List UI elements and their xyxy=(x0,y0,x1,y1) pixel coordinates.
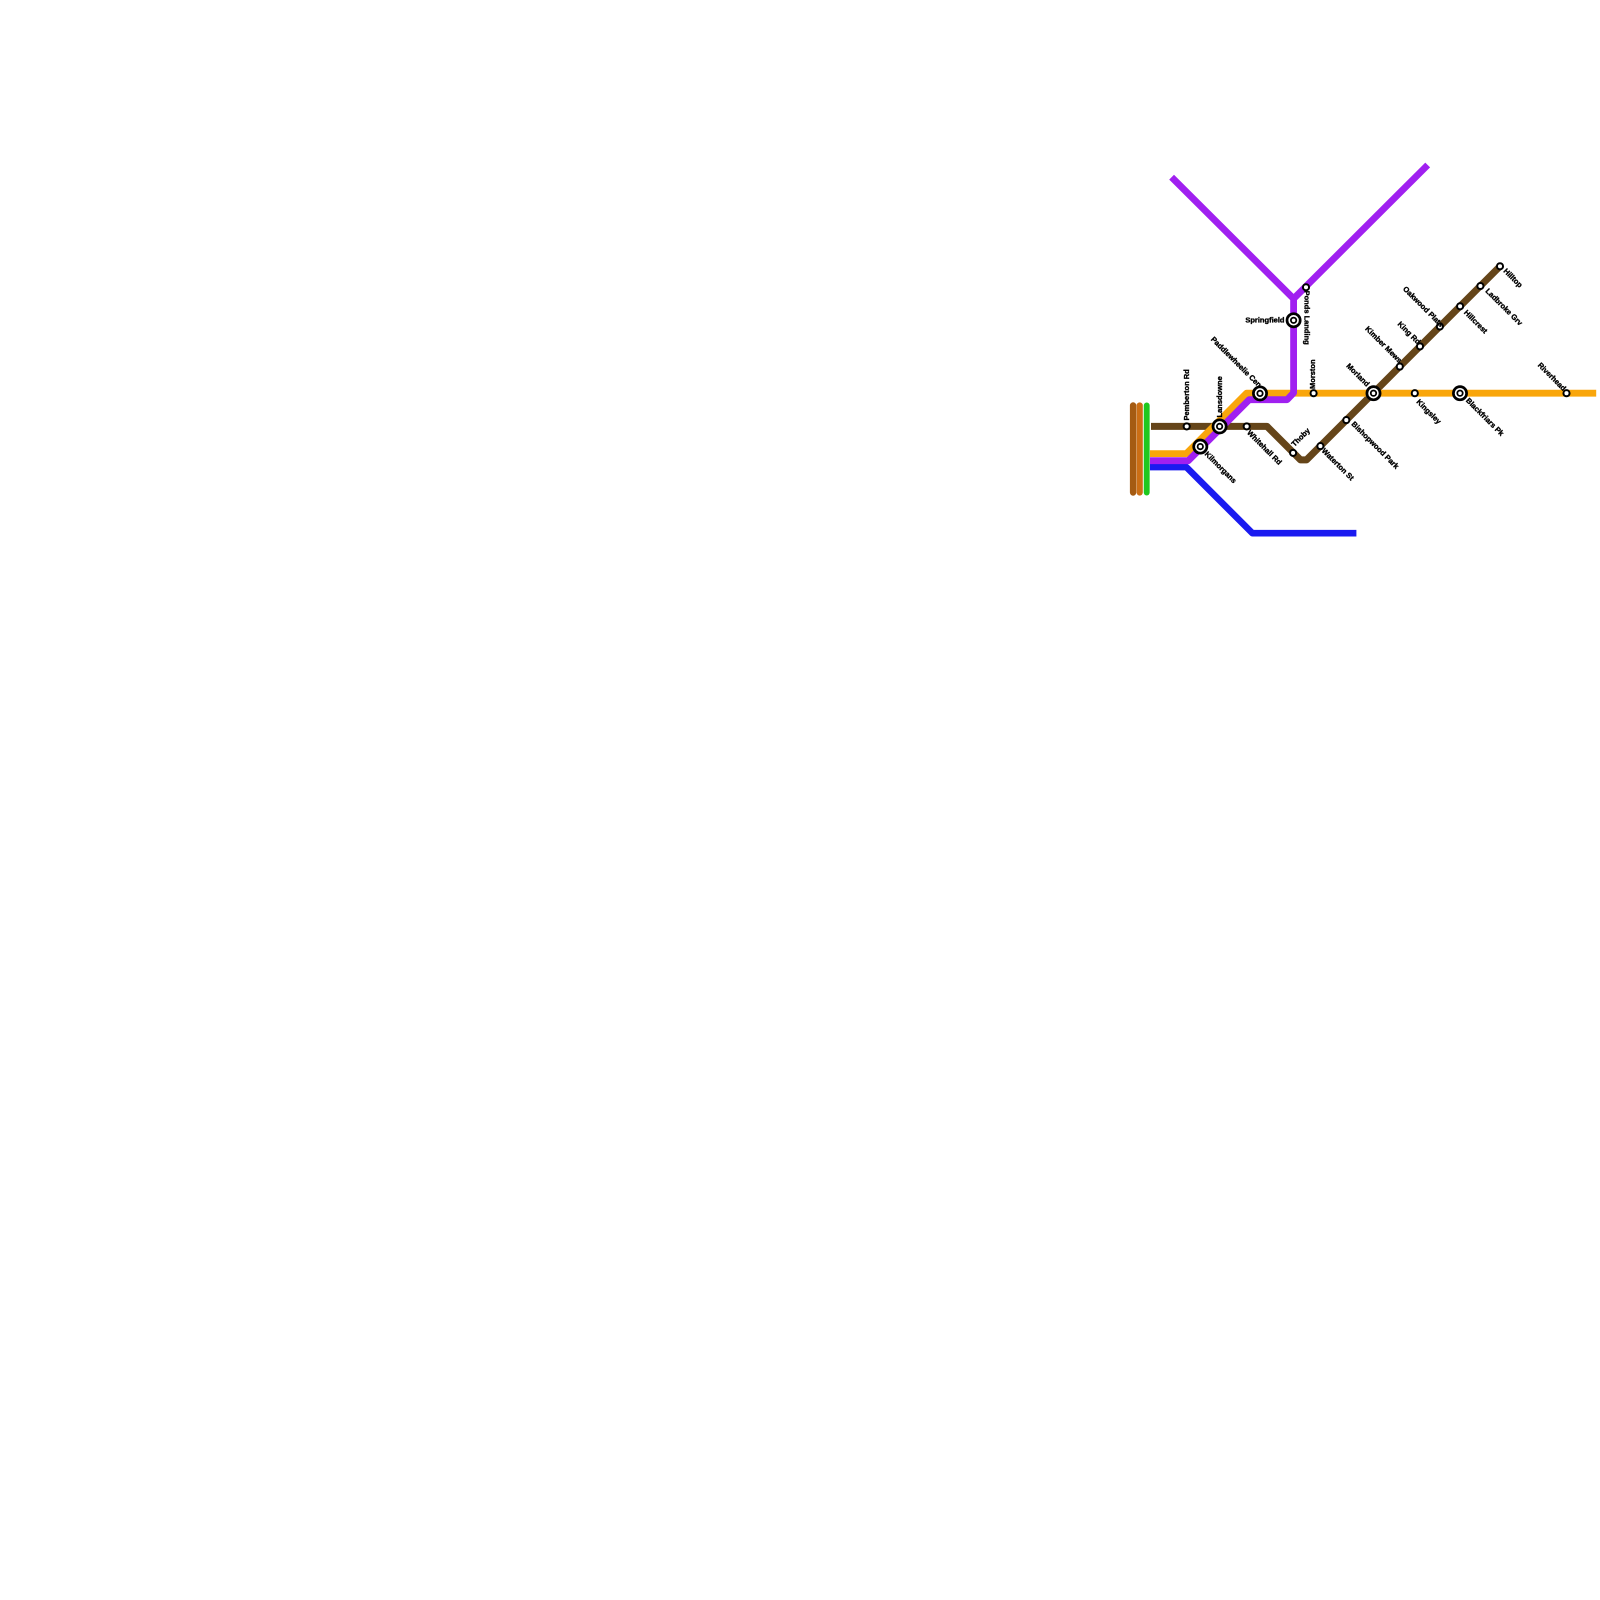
station B3 xyxy=(1244,423,1250,429)
interchange P2 xyxy=(1287,314,1300,327)
station P1 xyxy=(1303,284,1309,290)
brown-orange line terminal bar xyxy=(1130,406,1136,493)
station B12 xyxy=(1477,283,1483,289)
svg-text:Ponds Landing: Ponds Landing xyxy=(1303,291,1312,346)
svg-text:Springfield: Springfield xyxy=(1245,316,1285,325)
green line terminal bar xyxy=(1144,406,1150,493)
station B6 xyxy=(1343,417,1349,423)
purple line main xyxy=(1150,177,1294,461)
station O5 xyxy=(1563,390,1569,396)
svg-text:Lansdowne: Lansdowne xyxy=(1215,376,1224,417)
interchange O4 xyxy=(1453,387,1466,400)
station O3 xyxy=(1412,390,1418,396)
station B9 xyxy=(1417,343,1423,349)
station B4 xyxy=(1290,450,1296,456)
chocolate line terminal bar xyxy=(1137,406,1143,493)
interchange X2 xyxy=(1194,440,1207,453)
station B1 xyxy=(1184,423,1190,429)
station B11 xyxy=(1457,303,1463,309)
purple line right branch xyxy=(1294,165,1428,299)
interchange B2 xyxy=(1213,420,1226,433)
svg-text:Pemberton Rd: Pemberton Rd xyxy=(1182,369,1191,421)
station B8 xyxy=(1397,364,1403,370)
blue line xyxy=(1150,467,1356,533)
orange line xyxy=(1150,393,1596,453)
station B10 xyxy=(1437,323,1443,329)
brown line xyxy=(1151,266,1500,460)
station B5 xyxy=(1317,443,1323,449)
interchange B7 xyxy=(1367,387,1380,400)
interchange X1 xyxy=(1253,387,1266,400)
station B13 terminus xyxy=(1497,263,1503,269)
svg-text:Morston: Morston xyxy=(1308,359,1317,389)
station O1 xyxy=(1311,390,1317,396)
